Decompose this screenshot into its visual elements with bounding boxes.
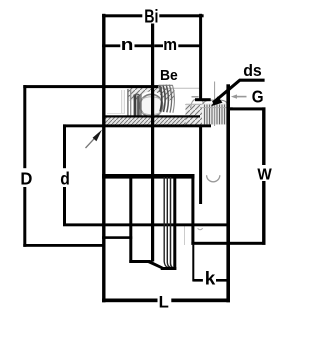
collar hatch left of screw (faded)	[186, 104, 203, 125]
lower view vertical x193 (collar face)	[191, 177, 194, 245]
right inner-ring extension vertical (middle)	[199, 126, 202, 205]
thin dash left of extension line	[192, 96, 199, 98]
d bottom extension / H1	[63, 223, 229, 226]
dimension Bi line	[102, 14, 142, 17]
faint sleeve edge line	[184, 225, 186, 245]
tick at set screw	[195, 98, 211, 101]
set screw threads (faded)	[203, 104, 228, 125]
dimension k extension vertical	[192, 245, 194, 282]
right inner-ring extension vertical (top)	[199, 14, 202, 101]
left ring edge lines (faded)	[127, 89, 129, 116]
svg-text:W: W	[257, 167, 272, 184]
ball (faded)	[140, 94, 163, 117]
svg-text:k: k	[205, 269, 217, 289]
svg-text:G: G	[252, 87, 264, 107]
G leader arrow (gray)	[234, 96, 247, 98]
center divider vertical	[151, 24, 154, 262]
collar bottom face / W bottom extension	[191, 242, 265, 245]
right face extension vertical	[226, 84, 230, 302]
ds arrowhead	[211, 96, 223, 106]
ds leader line	[213, 80, 265, 103]
race gap (white ring around ball)	[137, 91, 165, 119]
lower sleeve thin lines	[164, 177, 167, 267]
dimension k line	[193, 279, 203, 282]
dimension L line	[102, 299, 157, 303]
small gray arc below H1	[198, 228, 203, 229]
sleeve top line	[104, 115, 200, 117]
svg-text:ds: ds	[243, 62, 262, 80]
svg-text:L: L	[159, 293, 169, 312]
snap ring groove (faint)	[121, 90, 123, 114]
left face extension vertical	[102, 14, 105, 303]
inner ring band hatch (section, faded)	[105, 117, 200, 124]
collar top boss outline (faded)	[191, 99, 205, 108]
svg-text:m: m	[163, 36, 177, 54]
right seal arcs (dark, faded)	[160, 86, 162, 112]
svg-text:D: D	[20, 169, 32, 189]
sleeve bottom	[129, 260, 151, 263]
dimension D bottom extension	[23, 244, 105, 247]
svg-text:Be: Be	[160, 67, 178, 84]
dimension n-m line	[102, 44, 120, 47]
set screw centerline cross (thin, faded)	[214, 82, 216, 127]
dimension D vertical	[23, 85, 26, 168]
bearing outer ring hatch (section, faded)	[128, 88, 175, 101]
lower view vertical x175	[173, 177, 176, 270]
lower step horizontal	[102, 236, 132, 239]
bore line / d top extension	[63, 124, 211, 127]
set screw hole in lower view (gray circle)	[207, 175, 220, 182]
leader arrow to corner	[86, 136, 97, 148]
W top extension	[228, 107, 266, 110]
left seal (dark)	[134, 95, 137, 116]
svg-text:d: d	[60, 169, 70, 189]
dimension W vertical	[262, 107, 265, 165]
svg-text:n: n	[121, 36, 134, 54]
dimension D top extension	[23, 85, 158, 88]
dimension d vertical	[63, 124, 66, 168]
thick mid horizontal	[102, 174, 194, 179]
lower view vertical x131	[129, 177, 132, 263]
svg-text:Bi: Bi	[144, 5, 158, 26]
